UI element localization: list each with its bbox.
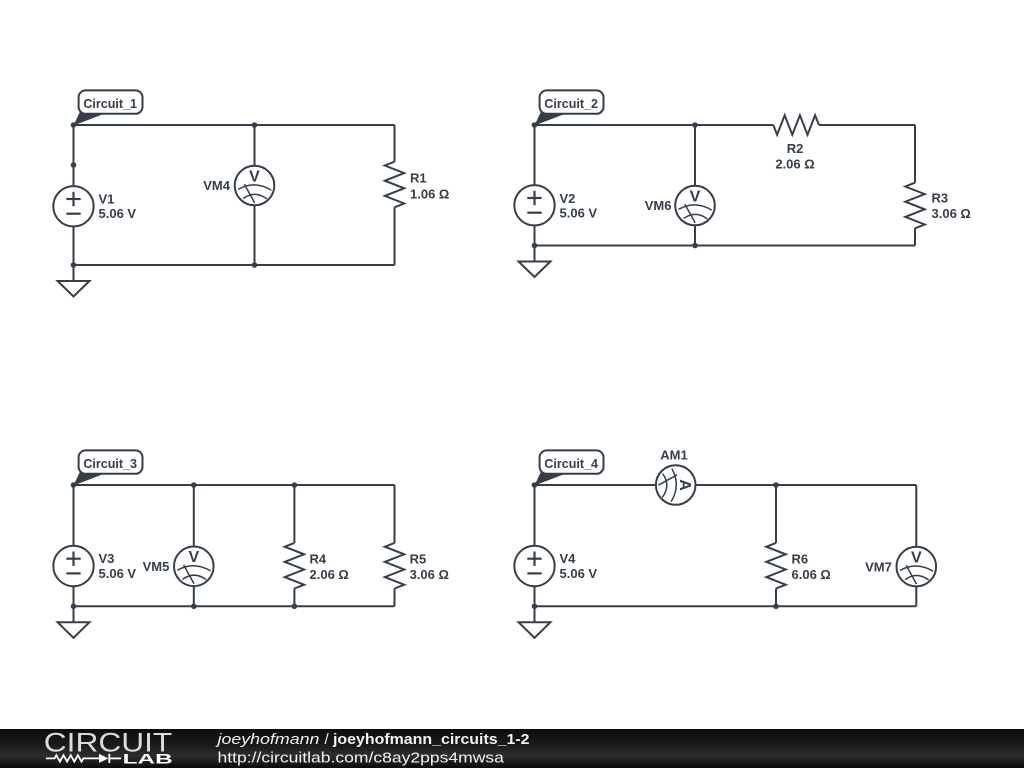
- wire: [73, 125, 75, 186]
- junction dot: [71, 482, 77, 488]
- svg-text:http://circuitlab.com/c8ay2pps: http://circuitlab.com/c8ay2pps4mwsa: [218, 750, 505, 767]
- svg-text:5.06 V: 5.06 V: [560, 566, 598, 581]
- svg-text:3.06 Ω: 3.06 Ω: [932, 206, 971, 221]
- junction dot: [71, 122, 77, 128]
- junction dot: [191, 604, 197, 610]
- wire: [193, 586, 195, 606]
- wire: [254, 125, 256, 165]
- node label Circuit_3: [74, 450, 143, 485]
- wire: [914, 125, 916, 183]
- ground: [58, 265, 90, 297]
- junction dot: [191, 482, 197, 488]
- svg-text:Circuit_4: Circuit_4: [544, 456, 598, 471]
- wire: [535, 484, 656, 486]
- wire: [694, 125, 696, 186]
- svg-text:V3: V3: [99, 551, 115, 566]
- wire: [819, 124, 915, 126]
- wire: [535, 124, 774, 126]
- wire: [535, 605, 917, 607]
- svg-text:joeyhofmann: joeyhofmann: [215, 731, 319, 748]
- junction dot: [532, 122, 538, 128]
- svg-text:LAB: LAB: [123, 752, 173, 767]
- svg-text:VM6: VM6: [645, 198, 672, 213]
- voltage source V4: [514, 546, 554, 586]
- voltage source V1: [53, 186, 93, 226]
- wire: [775, 485, 777, 543]
- ground: [519, 246, 551, 278]
- wire: [193, 485, 195, 546]
- junction dot: [252, 122, 258, 128]
- svg-text:A: A: [676, 479, 693, 491]
- svg-text:V: V: [249, 168, 260, 185]
- wire: [534, 586, 536, 606]
- svg-text:VM4: VM4: [203, 178, 231, 193]
- svg-text:Circuit_3: Circuit_3: [83, 456, 137, 471]
- svg-text:V4: V4: [560, 551, 577, 566]
- svg-text:2.06 Ω: 2.06 Ω: [310, 567, 349, 582]
- wire: [254, 206, 256, 265]
- svg-text:V: V: [188, 549, 199, 566]
- voltmeter VM7: [897, 547, 937, 587]
- svg-text:R5: R5: [410, 551, 427, 566]
- svg-text:V: V: [911, 549, 922, 566]
- svg-text:6.06 Ω: 6.06 Ω: [792, 567, 831, 582]
- svg-text:3.06 Ω: 3.06 Ω: [410, 567, 449, 582]
- svg-text:V2: V2: [560, 191, 576, 206]
- junction dot: [292, 604, 298, 610]
- wire: [73, 226, 75, 265]
- wire: [73, 485, 75, 546]
- footer bar: [0, 729, 1024, 768]
- wire: [775, 589, 777, 607]
- ground: [58, 606, 90, 638]
- wire: [394, 589, 396, 607]
- junction dot: [71, 162, 77, 168]
- wire: [534, 485, 536, 546]
- svg-text:2.06 Ω: 2.06 Ω: [775, 157, 814, 172]
- logo resistor-diode squiggle: [46, 754, 121, 763]
- junction dot: [292, 482, 298, 488]
- node label Circuit_2: [535, 90, 604, 125]
- junction dot: [532, 604, 538, 610]
- voltmeter VM5: [174, 547, 214, 587]
- wire: [394, 125, 396, 162]
- junction dot: [532, 243, 538, 249]
- ground: [519, 606, 551, 638]
- ammeter AM1: [656, 465, 696, 505]
- svg-text:R6: R6: [792, 551, 809, 566]
- wire: [293, 589, 295, 607]
- wire: [534, 225, 536, 246]
- svg-text:1.06 Ω: 1.06 Ω: [410, 186, 449, 201]
- resistor R1: [385, 162, 404, 208]
- svg-text:R3: R3: [932, 191, 949, 206]
- wire: [696, 484, 917, 486]
- svg-text:R2: R2: [787, 141, 804, 156]
- svg-text:Circuit_2: Circuit_2: [544, 96, 598, 111]
- junction dot: [532, 482, 538, 488]
- voltage source V2: [514, 185, 554, 225]
- wire: [915, 485, 917, 547]
- junction dot: [692, 122, 698, 128]
- wire: [535, 245, 916, 247]
- junction dot: [773, 604, 779, 610]
- svg-text:R1: R1: [410, 171, 427, 186]
- wire: [534, 125, 536, 186]
- voltmeter VM4: [235, 166, 275, 206]
- svg-text:joeyhofmann_circuits_1-2: joeyhofmann_circuits_1-2: [332, 731, 530, 748]
- wire: [394, 485, 396, 543]
- wire: [74, 264, 395, 266]
- resistor R2: [773, 115, 819, 134]
- junction dot: [252, 262, 258, 268]
- wire: [74, 605, 395, 607]
- node label Circuit_1: [74, 90, 143, 125]
- logo diode triangle: [99, 754, 108, 763]
- svg-text:5.06 V: 5.06 V: [560, 206, 598, 221]
- svg-text:5.06 V: 5.06 V: [99, 206, 137, 221]
- svg-text:5.06 V: 5.06 V: [99, 566, 137, 581]
- wire: [914, 228, 916, 245]
- junction dot: [773, 482, 779, 488]
- svg-text:V: V: [690, 188, 701, 205]
- resistor R4: [285, 543, 304, 589]
- wire: [694, 225, 696, 245]
- junction dot: [692, 243, 698, 249]
- svg-text:V1: V1: [99, 192, 115, 207]
- svg-text:VM5: VM5: [143, 559, 170, 574]
- resistor R5: [385, 543, 404, 589]
- wire: [74, 484, 395, 486]
- svg-text:Circuit_1: Circuit_1: [83, 96, 137, 111]
- node label Circuit_4: [535, 450, 604, 485]
- svg-text:AM1: AM1: [660, 448, 687, 463]
- wire: [915, 587, 917, 607]
- junction dot: [71, 604, 77, 610]
- wire: [74, 124, 395, 126]
- junction dot: [71, 262, 77, 268]
- wire: [394, 207, 396, 265]
- svg-text:VM7: VM7: [865, 559, 892, 574]
- resistor R3: [905, 183, 924, 229]
- resistor R6: [766, 543, 785, 589]
- svg-text:R4: R4: [310, 551, 327, 566]
- voltage source V3: [53, 546, 93, 586]
- voltmeter VM6: [675, 186, 715, 226]
- wire: [73, 586, 75, 606]
- wire: [293, 485, 295, 543]
